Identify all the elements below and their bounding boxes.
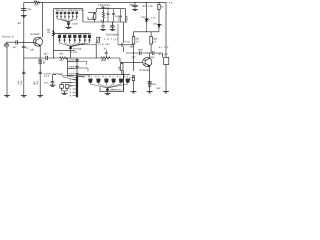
svg-text:TDA7010W: TDA7010W xyxy=(106,33,119,36)
capacitor C22 (elco on bias line) xyxy=(22,72,25,73)
svg-text:4µ7: 4µ7 xyxy=(33,80,36,85)
svg-text:1/7: 1/7 xyxy=(136,40,140,43)
ground (varicap) xyxy=(105,94,111,95)
TDA top wire xyxy=(96,8,125,10)
capacitor C10 (under label) xyxy=(102,6,105,8)
capacitor C6 xyxy=(75,60,78,61)
ground (C20) xyxy=(132,9,138,10)
ground (mic) xyxy=(4,96,10,97)
resistor R4 (series on audio bus) xyxy=(60,57,68,59)
svg-text:1µF: 1µF xyxy=(30,48,35,51)
svg-text:CM1: CM1 xyxy=(34,4,40,7)
ground (C21) xyxy=(131,92,137,93)
transistor T1 BC550C xyxy=(34,37,43,46)
transistor T2 xyxy=(143,57,152,66)
wire mic to C2 xyxy=(7,41,16,43)
wire C16 node down xyxy=(122,47,124,52)
capacitor C4 (emitter bypass, electrolytic) xyxy=(39,60,42,61)
mid bank bus xyxy=(54,33,91,35)
svg-text:4µ7: 4µ7 xyxy=(13,46,18,49)
resistor R1 (series, on supply rail) xyxy=(34,2,40,4)
wire indicator bus xyxy=(134,31,160,33)
svg-text:BLM10 N: BLM10 N xyxy=(2,36,14,39)
capacitor C17 series xyxy=(140,51,141,55)
svg-text:1µ: 1µ xyxy=(26,47,29,50)
node dots on TDA bottom wire xyxy=(103,22,104,23)
svg-text:10µ: 10µ xyxy=(27,8,32,11)
svg-text:C2042 TDB132: C2042 TDB132 xyxy=(44,72,64,75)
wire ladder L-stubs right xyxy=(77,61,90,76)
LED D3 xyxy=(145,19,148,22)
svg-text:16V: 16V xyxy=(156,87,161,90)
S1 switch body (vertical bar) xyxy=(76,76,78,97)
svg-text:1 Ω 7 (1): 1 Ω 7 (1) xyxy=(104,38,118,41)
svg-text:4: 4 xyxy=(70,88,72,91)
S1 right stubs to preset bank xyxy=(78,75,88,78)
ground (C15) xyxy=(110,29,116,30)
svg-text:1 kΩ: 1 kΩ xyxy=(125,41,130,44)
svg-text:4k7: 4k7 xyxy=(136,38,140,41)
svg-text:LD2: LD2 xyxy=(141,16,146,19)
battery / jack box K1 xyxy=(164,57,169,64)
ground (T2 emitter) xyxy=(147,92,153,93)
svg-text:BB909 Ω 0.1: BB909 Ω 0.1 xyxy=(110,89,122,92)
svg-text:22k: 22k xyxy=(59,59,64,62)
wire: feed for capacitor banks xyxy=(53,9,55,58)
svg-text:K1 3.5: K1 3.5 xyxy=(159,46,169,49)
svg-text:+9V: +9V xyxy=(167,1,173,4)
small box L2 xyxy=(60,85,64,89)
svg-text:2k2: 2k2 xyxy=(47,29,51,32)
resistor R9 (box under wire y62) xyxy=(121,63,123,70)
elco ladder left bus xyxy=(68,58,76,77)
wire: +9V supply rail xyxy=(24,1,166,3)
svg-text:6: 6 xyxy=(70,94,72,97)
svg-text:BC550C: BC550C xyxy=(31,33,41,36)
svg-text:4k7: 4k7 xyxy=(142,5,146,8)
resistor R12 (box) xyxy=(132,37,135,45)
TDA bottom wire xyxy=(83,21,127,23)
capacitor C20 rail decouple xyxy=(132,5,138,9)
wire: emitter drop xyxy=(39,47,41,58)
mid bank wires converge xyxy=(60,43,90,47)
top bank bus xyxy=(54,9,83,22)
svg-text:5k6: 5k6 xyxy=(153,38,157,41)
wire under varicap to bus xyxy=(54,51,75,58)
capacitor C15 drop xyxy=(110,22,114,29)
resistor R11 (box) xyxy=(158,4,160,9)
preset bank top wire xyxy=(88,74,130,76)
elco ladder right bus xyxy=(76,58,78,97)
svg-text:to C12: to C12 xyxy=(70,51,77,54)
resistor R7 (zigzag, vertical) xyxy=(102,9,104,22)
varicap D1 xyxy=(69,47,72,49)
ground (right rail) xyxy=(163,92,169,93)
svg-text:470: 470 xyxy=(59,52,64,55)
wire emitter down xyxy=(149,67,151,91)
svg-text:100n: 100n xyxy=(151,83,157,86)
svg-text:(1.0 µF): (1.0 µF) xyxy=(98,43,109,46)
node: bias line joins audio bus xyxy=(23,57,24,58)
svg-text:16V: 16V xyxy=(20,80,23,85)
capacitor C3 (on bias line) xyxy=(22,46,26,47)
wire: bias feed vertical (continuous) xyxy=(23,2,25,95)
resistor R13 (box) xyxy=(150,37,153,45)
capacitor C11 xyxy=(107,9,110,22)
svg-text:Bt1 9V: Bt1 9V xyxy=(159,53,168,56)
svg-text:LD1: LD1 xyxy=(153,23,158,26)
wire long vertical to varicap bus xyxy=(122,22,124,43)
mid bank: capacitor plate pairs xyxy=(59,38,91,43)
ground (C9) xyxy=(50,85,56,86)
svg-text:P1 P2 P3 P4 P5 P6: P1 P2 P3 P4 P5 P6 xyxy=(88,75,129,78)
svg-text:1 Ω 2: 1 Ω 2 xyxy=(44,75,50,78)
ground (top bank) xyxy=(66,27,72,28)
svg-text:BC550B: BC550B xyxy=(140,69,150,72)
resistor R6 (box, vertical) xyxy=(94,14,96,19)
svg-text:1.7k: 1.7k xyxy=(151,16,156,19)
preset pots row (bodies) xyxy=(88,79,130,83)
capacitor C23 (elco on emitter line) xyxy=(39,72,42,73)
svg-text:LD5: LD5 xyxy=(118,65,121,70)
wire LED2 branch xyxy=(158,3,160,5)
capacitor C18 series xyxy=(153,51,154,55)
ground (bias line) xyxy=(21,96,27,97)
svg-text:10µ: 10µ xyxy=(17,80,20,85)
capacitor C9 (left of S1) xyxy=(51,75,55,85)
wire under varicap xyxy=(100,71,123,92)
svg-text:100n: 100n xyxy=(129,3,135,6)
svg-text:4k7: 4k7 xyxy=(17,22,21,25)
wire mid-bank to trimpot drop xyxy=(78,44,97,46)
wire rail indicator branch A xyxy=(134,3,136,6)
capacitor C7 xyxy=(75,67,78,68)
preset pot drop wires xyxy=(90,83,127,88)
small box L3 xyxy=(65,85,69,89)
wire: audio bus (horizontal) xyxy=(24,57,96,59)
top bank wires converge xyxy=(57,19,77,22)
wire trimpot to audio bus xyxy=(95,43,97,58)
LED D4 xyxy=(158,24,161,27)
capacitor C8 xyxy=(75,74,78,75)
svg-text:100n: 100n xyxy=(138,49,144,52)
svg-text:4µ7: 4µ7 xyxy=(44,53,49,56)
svg-text:100n: 100n xyxy=(117,16,120,22)
capacitor C16 (series) xyxy=(118,43,133,47)
capacitor C21 (electrolytic on x133) xyxy=(132,76,135,77)
S1 pins left with labels xyxy=(73,79,76,95)
trimpot P7 xyxy=(97,37,100,42)
wire left stubs xyxy=(88,9,96,20)
resistor R8 (series on audio bus right) xyxy=(101,57,110,59)
svg-text:2n2: 2n2 xyxy=(44,81,49,84)
svg-text:5k68: 5k68 xyxy=(101,59,107,62)
wire: collector feed from rail xyxy=(42,3,44,38)
capacitor C12 xyxy=(112,9,115,22)
svg-text:1.2k: 1.2k xyxy=(148,5,153,8)
svg-text:2: 2 xyxy=(70,82,72,85)
wire: mic return to ground xyxy=(6,48,8,95)
wire +9V right rail xyxy=(165,3,167,58)
svg-text:1k: 1k xyxy=(161,5,164,8)
wire diagonals to S1 xyxy=(58,74,76,80)
svg-text:3: 3 xyxy=(70,85,72,88)
top bank: capacitor plate pairs xyxy=(56,14,77,19)
wire y53 output line xyxy=(126,53,162,57)
svg-text:10µ: 10µ xyxy=(129,76,132,81)
svg-text:100n: 100n xyxy=(105,7,111,10)
wires S1 area xyxy=(62,83,73,94)
svg-text:3.3µF: 3.3µF xyxy=(68,65,75,68)
ground (S1 area) xyxy=(62,93,68,94)
capacitor C13 xyxy=(119,9,122,22)
ground (emitter branch) xyxy=(37,96,43,97)
node base junction xyxy=(23,42,24,43)
inductor L1 / varicap top xyxy=(67,22,70,25)
capacitor C5 (series on audio bus) xyxy=(46,56,48,60)
capacitor C1 (electrolytic to ground) xyxy=(21,9,26,11)
svg-text:4.7µF: 4.7µF xyxy=(68,59,75,62)
cap on x106 above xyxy=(105,50,108,58)
ground (C14) xyxy=(100,29,106,30)
svg-text:C4B5: C4B5 xyxy=(126,15,129,21)
microphone MIC1 xyxy=(5,43,9,47)
wire below K1 xyxy=(165,64,167,91)
svg-text:10µ: 10µ xyxy=(150,56,155,59)
svg-text:1/7: 1/7 xyxy=(153,40,157,43)
svg-text:10n 10n 10n 10n 10n 10n 1n: 10n 10n 10n 10n 10n 10n 1n xyxy=(58,33,92,36)
wire right side of TDA xyxy=(125,9,127,22)
ground (left branch) xyxy=(21,16,27,17)
svg-text:4µ7: 4µ7 xyxy=(42,59,45,64)
wire drops below TDA xyxy=(101,22,105,29)
svg-text:5: 5 xyxy=(70,91,72,94)
svg-text:1%: 1% xyxy=(47,31,50,34)
mid capacitor bank: trimmer bodies with labels xyxy=(58,35,91,38)
resistor R5 on bank feed xyxy=(52,31,54,37)
svg-text:KV1310: KV1310 xyxy=(73,47,82,50)
wire bus continues xyxy=(96,58,142,62)
svg-text:4.7µH: 4.7µH xyxy=(72,23,79,26)
capacitor C2 (coupling, series) xyxy=(16,40,17,44)
svg-text:4µ7: 4µ7 xyxy=(132,56,137,59)
top bank: trimmer bodies row xyxy=(56,12,78,14)
wire LED1 branch xyxy=(146,3,148,19)
node collector junction xyxy=(147,52,148,53)
varicap D2 xyxy=(106,88,109,90)
svg-text:100n 4n7 1n 470p 220p 2 10: 100n 4n7 1n 470p 220p 2 10 xyxy=(55,9,83,12)
capacitor C19 on emitter branch xyxy=(148,82,152,83)
svg-text:16V: 16V xyxy=(36,80,39,85)
svg-text:2.2µF: 2.2µF xyxy=(68,72,75,75)
